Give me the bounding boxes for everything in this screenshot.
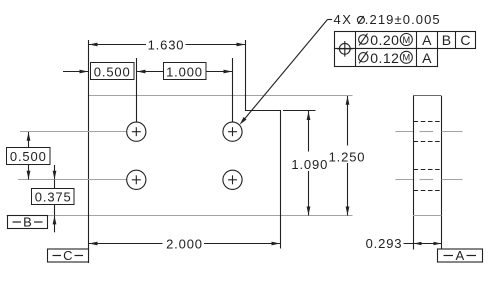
datum A symbol bbox=[438, 248, 483, 263]
svg-text:B: B bbox=[23, 215, 32, 230]
svg-text:1.250: 1.250 bbox=[329, 149, 366, 164]
part outline: bottom edge (with extensions left for datum B and right for 1.250 dim) bbox=[7, 215, 353, 217]
dimension 0.500 basic (top left) bbox=[63, 63, 134, 80]
datum B symbol bbox=[8, 215, 48, 230]
svg-text:A: A bbox=[455, 248, 464, 263]
svg-text:M: M bbox=[402, 35, 410, 45]
svg-text:0.500: 0.500 bbox=[94, 64, 131, 79]
svg-text:1.630: 1.630 bbox=[148, 38, 185, 53]
svg-text:B: B bbox=[442, 32, 452, 48]
svg-text:1.000: 1.000 bbox=[166, 64, 203, 79]
svg-text:.219±0.005: .219±0.005 bbox=[365, 12, 441, 27]
FCF row 1 tolerance dia 0.20 (M) bbox=[359, 32, 413, 48]
hole 4 (bottom-right) bbox=[223, 170, 242, 189]
side view centerline row 2 bbox=[396, 179, 463, 181]
dimension 1.090 (right of part) bbox=[283, 111, 328, 216]
svg-text:C: C bbox=[460, 32, 471, 48]
part outline: top edge (with extension to 1.250 dim) bbox=[88, 95, 353, 97]
datum C symbol bbox=[48, 248, 89, 263]
position symbol bbox=[337, 41, 353, 57]
side view right edge / extension to datum A bbox=[441, 96, 443, 250]
side view bottom edge bbox=[413, 215, 442, 217]
svg-text:2.000: 2.000 bbox=[166, 237, 203, 252]
part outline: notch vertical edge / extension line for 1.630 dim bbox=[245, 40, 247, 111]
leader line for hole callout bbox=[240, 20, 332, 125]
hole 2 (top-right) bbox=[223, 122, 242, 141]
svg-text:M: M bbox=[402, 53, 410, 63]
hole 3 (bottom-left) bbox=[127, 170, 146, 189]
FCF row 2 tolerance dia 0.12 (M) bbox=[359, 50, 413, 66]
svg-text:0.375: 0.375 bbox=[35, 189, 72, 204]
svg-text:A: A bbox=[422, 32, 432, 48]
centerline hole column 1 bbox=[136, 58, 138, 123]
svg-text:4X: 4X bbox=[334, 12, 353, 27]
part outline: notch horizontal edge bbox=[245, 110, 281, 112]
centerline hole row 1 (left extension for 0.500 dim) bbox=[20, 131, 131, 133]
centerline hole row 2 (left extension for 0.375 dim) bbox=[18, 179, 131, 181]
dimension 0.293 (side view thickness) bbox=[366, 236, 442, 251]
dimension 1.000 basic (top) bbox=[137, 63, 233, 80]
dimension 1.630 (top) bbox=[89, 38, 246, 53]
hole callout text 4X dia .219 +/- 0.005 bbox=[334, 12, 441, 27]
side view top edge bbox=[413, 95, 442, 97]
svg-text:0.12: 0.12 bbox=[370, 50, 399, 66]
svg-text:0.20: 0.20 bbox=[370, 32, 399, 48]
dimension 1.250 (far right of main view) bbox=[329, 96, 366, 216]
dimension 0.375 basic (left, row 2 to bottom) bbox=[32, 165, 75, 232]
svg-text:A: A bbox=[422, 50, 432, 66]
svg-text:C: C bbox=[63, 248, 72, 263]
part outline: left edge / extension line through datum C bbox=[88, 40, 90, 263]
part outline: right edge / extension line for 2.000 dim bbox=[280, 111, 282, 249]
svg-text:0.500: 0.500 bbox=[10, 149, 47, 164]
hole 1 (top-left) bbox=[127, 122, 146, 141]
dimension 0.500 basic (left, between hole rows) bbox=[7, 132, 51, 180]
dimension 2.000 (bottom) bbox=[89, 237, 281, 252]
side view centerline row 1 bbox=[396, 131, 463, 133]
hidden lines (hole edges) bbox=[414, 122, 442, 191]
side view left edge / extension for 0.293 bbox=[413, 96, 415, 250]
svg-text:0.293: 0.293 bbox=[366, 236, 403, 251]
centerline hole column 2 bbox=[232, 58, 234, 123]
svg-text:1.090: 1.090 bbox=[291, 157, 328, 172]
feature control frame box bbox=[335, 32, 476, 67]
